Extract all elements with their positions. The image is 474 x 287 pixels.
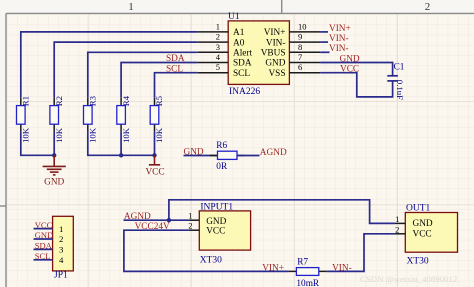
svg-text:VIN+: VIN+ [264,28,286,38]
INPUT1 pin 1 [188,211,199,221]
net label GND at R6 [184,147,204,157]
svg-text:SDA: SDA [35,241,53,251]
svg-text:VCC: VCC [145,168,164,178]
svg-text:10K: 10K [54,127,64,143]
svg-text:R4: R4 [121,95,131,106]
svg-text:10K: 10K [88,127,98,143]
wire pin4 to R4 [121,63,198,98]
net label AGND input [124,212,151,222]
svg-text:1: 1 [188,211,192,221]
wire pin6 to C1 bottom [320,73,393,97]
net label SDA JP1 [35,241,53,251]
wire pin1 to R1 [21,32,198,98]
svg-text:A0: A0 [233,38,245,48]
svg-text:8: 8 [298,42,302,52]
wire pin3 to R3 [88,52,198,98]
svg-text:Alert: Alert [233,49,253,59]
svg-text:SDA: SDA [166,54,185,64]
U1 pin 1 [198,21,229,32]
svg-text:XT30: XT30 [407,257,429,267]
svg-text:VIN+: VIN+ [262,263,284,273]
U1 pin 4 [198,52,229,63]
svg-text:3: 3 [216,42,220,52]
net label VIN+ pin10 [329,24,351,34]
svg-text:CSDN @weixin_40890012: CSDN @weixin_40890012 [360,274,457,284]
svg-text:1: 1 [59,224,63,234]
svg-text:1: 1 [395,214,399,224]
wire R3 R4 R5 vcc bus [88,132,155,156]
net label SCL JP1 [35,251,51,261]
junction AGND input [167,218,171,222]
junction at R5 vcc [152,153,156,157]
wire VCC24V net [124,230,289,271]
svg-text:7: 7 [298,52,302,62]
U1 pin 6 [289,62,320,73]
svg-text:SCL: SCL [35,251,51,261]
net label VIN- pin9 [329,34,349,44]
resistor R7 10mR [289,258,327,287]
U1 pin 2 [198,32,229,43]
svg-text:INA226: INA226 [229,87,260,97]
wire stub pin9 [320,41,328,43]
junction at R4 vcc [119,153,123,157]
svg-text:VIN-: VIN- [329,44,349,54]
JP1 pin 1 wire [34,228,53,230]
svg-text:VIN-: VIN- [329,34,349,44]
svg-text:VCC: VCC [413,229,432,239]
svg-text:2: 2 [395,224,399,234]
resistor R5 10K [150,95,164,143]
svg-text:R3: R3 [88,95,98,106]
svg-text:1: 1 [216,21,220,31]
wire GND to R6 [184,155,218,157]
junction at R2 gnd [52,153,56,157]
svg-text:2: 2 [59,234,63,244]
svg-text:VSS: VSS [268,69,285,79]
svg-text:0.1uF: 0.1uF [395,80,405,100]
svg-text:INPUT1: INPUT1 [200,203,233,213]
JP1 pin 3 wire [34,248,53,250]
wire R1 R2 gnd bus [21,132,54,156]
svg-text:6: 6 [298,62,302,72]
svg-text:GND: GND [44,178,64,188]
net label AGND at R6 [260,148,287,158]
svg-text:VCC: VCC [206,227,225,237]
wire R6 to AGND [237,155,260,157]
svg-text:GND: GND [35,230,53,240]
net label SDA [166,54,185,64]
wire stub pin8 [320,51,329,53]
U1 pin 7 [289,52,320,63]
svg-text:XT30: XT30 [200,256,222,266]
svg-text:R7: R7 [297,258,308,268]
svg-text:JP1: JP1 [54,271,68,281]
net label VIN- at R7 [332,263,352,273]
net label SCL [166,64,183,74]
INPUT1 pin 2 [188,221,199,231]
resistor R3 10K [84,95,98,143]
watermark [360,274,457,284]
svg-text:10: 10 [298,21,307,31]
net label GND JP1 [35,230,53,240]
svg-text:10K: 10K [154,127,164,143]
net label VIN- pin8 [329,44,349,54]
svg-text:0R: 0R [216,162,228,172]
svg-text:VCC: VCC [35,220,53,230]
wire pin7 to C1 top [320,63,393,76]
resistor R2 10K [50,96,64,143]
svg-text:3: 3 [59,245,64,255]
net label VCC pin6 [340,65,359,75]
JP1 pin 2 wire [34,238,53,240]
svg-text:10mR: 10mR [296,279,320,287]
net label VCC JP1 [35,220,53,230]
svg-text:R2: R2 [54,96,64,106]
U1 pin 3 [198,42,229,53]
resistor R1 10K [17,96,31,143]
svg-text:AGND: AGND [260,148,287,158]
svg-text:GND: GND [206,217,226,227]
svg-text:OUT1: OUT1 [406,203,431,213]
svg-text:SCL: SCL [233,69,250,79]
net label VCC24V [135,222,170,232]
svg-text:2: 2 [425,1,431,13]
svg-text:10K: 10K [121,127,131,143]
resistor R4 10K [117,95,131,143]
power VCC port [145,155,164,177]
U1 pin 5 [198,62,229,73]
svg-text:GND: GND [413,219,433,229]
OUT1 pin 2 [395,224,405,234]
connector OUT1 XT30 [405,203,457,266]
JP1 pin 4 wire [34,259,53,261]
U1 pin 9 [289,32,320,43]
svg-text:GND: GND [265,59,285,69]
svg-text:4: 4 [59,255,64,265]
wire stub pin10 [320,31,328,33]
svg-text:A1: A1 [233,28,245,38]
wire pin5 to R5 [155,73,198,98]
svg-text:C1: C1 [394,62,405,72]
svg-text:U1: U1 [228,12,240,22]
svg-text:9: 9 [298,32,302,42]
IC U1 INA226 [228,12,289,97]
svg-text:R5: R5 [154,95,164,106]
resistor R6 0R [210,141,245,172]
svg-text:2: 2 [188,221,192,231]
svg-text:R6: R6 [216,141,227,151]
svg-text:SCL: SCL [166,64,183,74]
svg-text:10K: 10K [21,127,31,143]
net label GND pin7 [340,54,360,64]
svg-text:2: 2 [216,32,220,42]
svg-text:VIN+: VIN+ [329,24,351,34]
svg-text:SDA: SDA [233,59,252,69]
connector INPUT1 XT30 [199,203,250,266]
capacitor C1 0.1uF [387,62,405,100]
svg-text:5: 5 [216,62,220,72]
ground GND power port [43,155,66,175]
svg-text:VIN-: VIN- [266,38,286,48]
U1 pin 10 [289,21,320,32]
wire R7 to OUT1 pin2 [327,234,395,272]
OUT1 pin 1 [395,214,405,224]
wire pin2 to R2 [54,42,198,98]
connector JP1 [53,216,74,280]
net label VIN+ at R7 [262,263,284,273]
svg-text:VBUS: VBUS [261,49,286,59]
U1 pin 8 [289,42,320,53]
wire AGND net [124,200,395,224]
svg-text:1: 1 [128,1,134,13]
svg-text:R1: R1 [21,96,31,106]
